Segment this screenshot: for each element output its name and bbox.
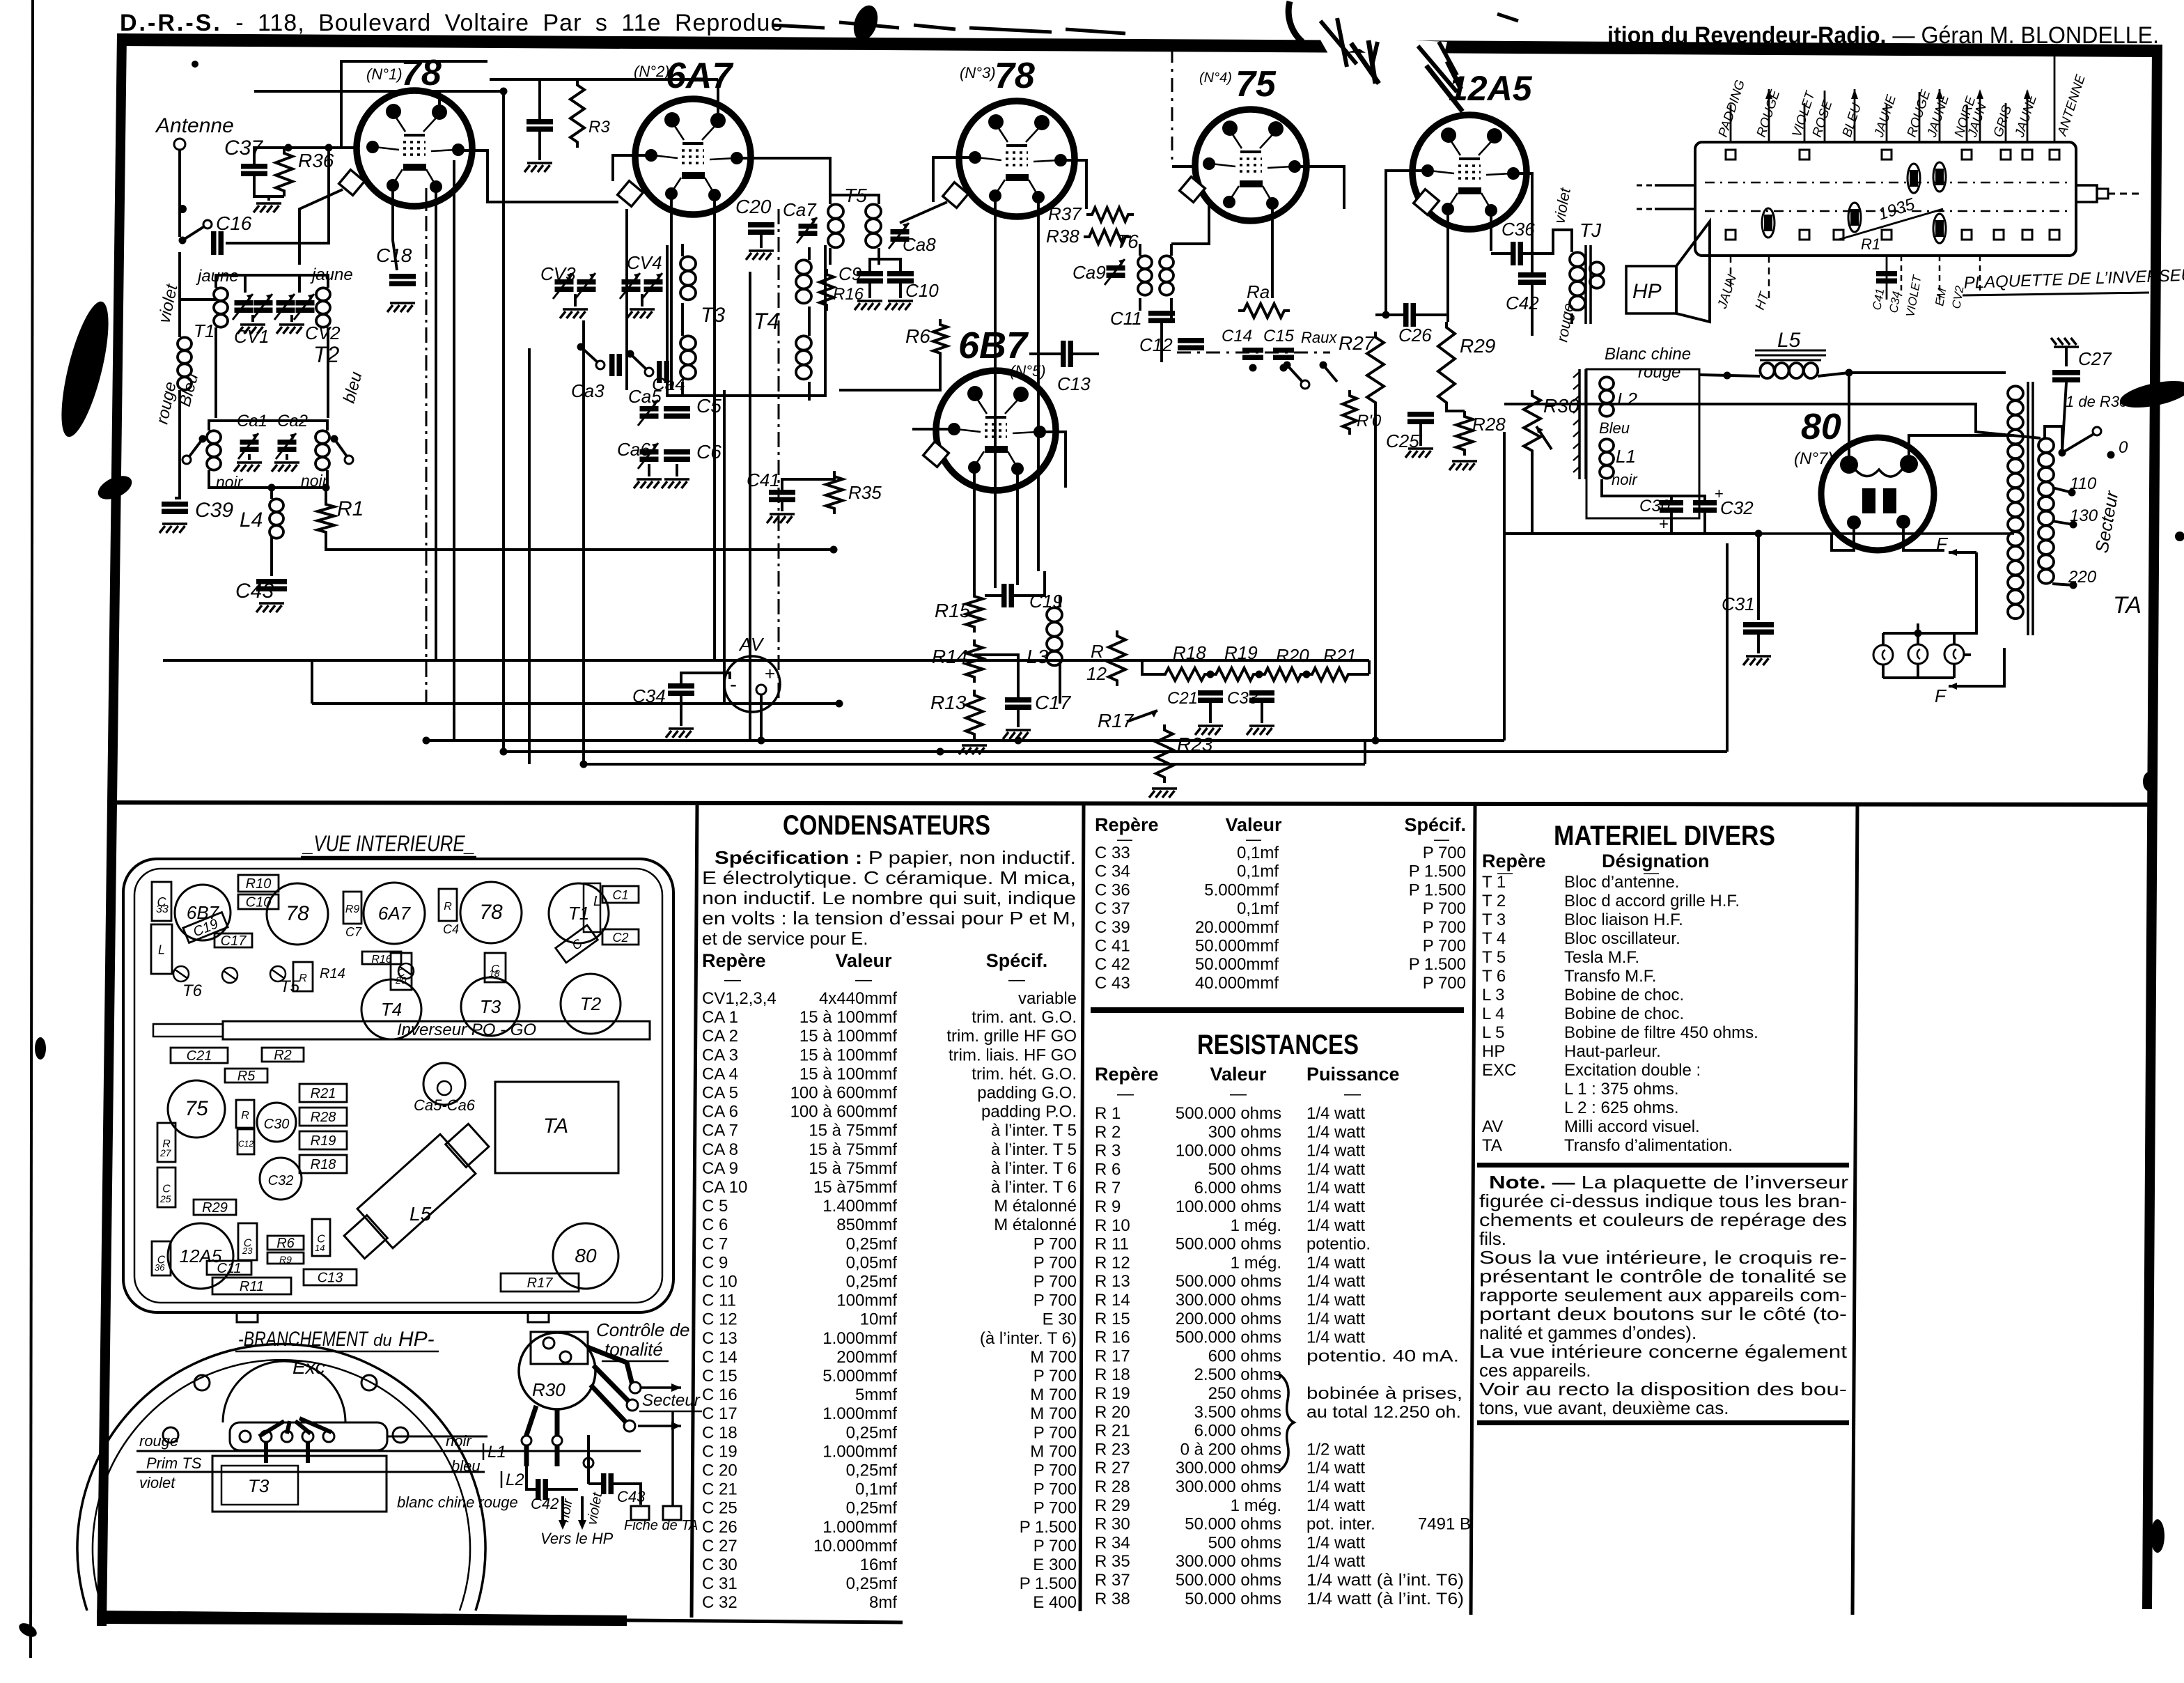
svg-text:CV1,2,3,4: CV1,2,3,4 [702, 989, 777, 1008]
svg-text:(à l’inter. T 6): (à l’inter. T 6) [980, 1329, 1077, 1348]
vi part C2 [602, 929, 639, 945]
svg-text:Transfo d’alimentation.: Transfo d’alimentation. [1564, 1136, 1733, 1155]
resistor R36 [276, 148, 292, 196]
svg-text:27: 27 [159, 1147, 172, 1158]
transformer TJ [1570, 219, 1604, 324]
svg-text:C 17: C 17 [702, 1404, 738, 1423]
svg-text:0,1mf: 0,1mf [1237, 844, 1279, 862]
svg-text:Puissance: Puissance [1306, 1064, 1400, 1085]
svg-text:tons, vue avant, deuxième cas.: tons, vue avant, deuxième cas. [1479, 1397, 1729, 1418]
svg-text:10.000mmf: 10.000mmf [813, 1537, 897, 1556]
svg-text:1/2 watt: 1/2 watt [1306, 1440, 1365, 1459]
wire R30 down [1531, 456, 1534, 534]
svg-text:75: 75 [1235, 64, 1277, 104]
capacitor C39 [162, 502, 188, 507]
vi part C14v [312, 1219, 330, 1256]
svg-text:Repère: Repère [1482, 851, 1546, 871]
vi tube 75 [168, 1080, 225, 1138]
svg-text:500.000 ohms: 500.000 ohms [1176, 1235, 1281, 1254]
plaquette labels top [1716, 72, 2089, 139]
svg-text:C32: C32 [1720, 497, 1754, 518]
speaker wires thick [259, 1418, 331, 1463]
svg-text:C 15: C 15 [702, 1367, 738, 1386]
svg-text:C6: C6 [696, 441, 721, 463]
svg-text:T3: T3 [701, 304, 725, 327]
svg-text:300.000 ohms: 300.000 ohms [1176, 1552, 1281, 1571]
svg-text:à l’inter. T 5: à l’inter. T 5 [991, 1140, 1077, 1159]
switch T2 left [199, 435, 207, 443]
ground C34 [680, 696, 682, 726]
transformer T3 [680, 244, 696, 397]
tube 80 pins [1840, 455, 1918, 529]
svg-text:200.000 ohms: 200.000 ohms [1176, 1310, 1281, 1328]
svg-text:600 ohms: 600 ohms [1208, 1347, 1281, 1365]
trimmer Ca6 [640, 449, 659, 455]
capacitor C26 [1403, 303, 1409, 327]
svg-text:Valeur: Valeur [835, 950, 892, 971]
grid cap 6A7 [618, 181, 643, 207]
capacitor C30 [1660, 500, 1683, 506]
svg-text:R13: R13 [930, 692, 967, 713]
svg-text:P 700: P 700 [1033, 1480, 1077, 1499]
svg-text:10mf: 10mf [860, 1310, 898, 1329]
svg-text:R 17: R 17 [1095, 1347, 1130, 1365]
wire C37/R36 bottom [254, 176, 284, 201]
vi trimmer Ca5-Ca6 [423, 1063, 465, 1105]
grid cap tube1 [339, 170, 365, 196]
transformer T4 [796, 247, 811, 401]
TA taps [2045, 426, 2077, 589]
wire vertical x1118 dashdot [778, 209, 780, 704]
svg-text:T6: T6 [182, 982, 203, 1000]
svg-text:Bloc oscillateur.: Bloc oscillateur. [1564, 929, 1680, 948]
capacitor C5 [664, 406, 690, 412]
vi part R29 [194, 1200, 236, 1216]
resistor R3 [570, 79, 584, 148]
svg-text:Note. — La plaquette de l’inve: Note. — La plaquette de l’inverseur [1489, 1172, 1848, 1193]
ground Ca6 [648, 464, 650, 476]
svg-text:T2: T2 [580, 993, 602, 1014]
svg-text:L 3: L 3 [1482, 986, 1504, 1005]
vi cap C32 [260, 1158, 302, 1200]
svg-text:au total 12.250 oh.: au total 12.250 oh. [1306, 1403, 1461, 1422]
svg-text:P 700: P 700 [1033, 1234, 1077, 1253]
svg-text:5mmf: 5mmf [855, 1386, 897, 1404]
resistor R12 [1109, 630, 1125, 686]
svg-text:R 37: R 37 [1095, 1571, 1130, 1590]
svg-text:50.000mmf: 50.000mmf [1195, 937, 1279, 956]
svg-text:6B7: 6B7 [958, 325, 1029, 366]
svg-text:L2: L2 [1617, 389, 1637, 410]
svg-text:P 700: P 700 [1033, 1253, 1077, 1272]
ground C39 [159, 524, 187, 533]
svg-text:Voir au recto la disposition d: Voir au recto la disposition des bou- [1479, 1379, 1847, 1399]
svg-text:T 6: T 6 [1482, 967, 1506, 986]
resistor R13 [966, 690, 983, 740]
arrows vers le HP [561, 1496, 564, 1524]
svg-text:—: — [1344, 1085, 1361, 1103]
table divider 1 [692, 805, 697, 1618]
svg-text:F: F [1935, 685, 1947, 706]
svg-text:—: — [1230, 1085, 1247, 1103]
svg-text:C14: C14 [1222, 327, 1252, 346]
vi can T4 [361, 979, 421, 1039]
trimmer Ca5 [640, 406, 659, 412]
transformer T6 [1138, 244, 1173, 320]
svg-text:R 19: R 19 [1095, 1384, 1130, 1403]
svg-text:C 25: C 25 [702, 1499, 738, 1518]
schematic bottom rule [117, 800, 2150, 807]
svg-text:3.500 ohms: 3.500 ohms [1194, 1403, 1281, 1422]
vi can T2 [561, 974, 621, 1034]
svg-text:T 1: T 1 [1482, 873, 1506, 892]
transformer T5 [828, 195, 881, 265]
resistor R15 [966, 591, 983, 633]
svg-text:CA 4: CA 4 [702, 1064, 738, 1083]
svg-text:-BRANCHEMENT: -BRANCHEMENT [238, 1328, 369, 1351]
svg-text:R: R [299, 972, 307, 984]
ground C25 [1419, 424, 1422, 446]
svg-text:14: 14 [315, 1243, 325, 1253]
svg-text:Bloc d’antenne.: Bloc d’antenne. [1564, 873, 1679, 892]
svg-text:C41: C41 [747, 470, 780, 490]
svg-text:C10: C10 [246, 895, 272, 910]
svg-text:1/4 watt: 1/4 watt [1306, 1104, 1365, 1123]
svg-text:L4: L4 [240, 509, 263, 532]
svg-text:C 37: C 37 [1095, 899, 1130, 918]
capacitor C25 [1407, 412, 1434, 417]
wire T2 to L4/R1 [270, 488, 273, 499]
svg-text:C 20: C 20 [702, 1461, 738, 1480]
vi tube 80 [553, 1223, 618, 1289]
wire top bus [254, 90, 504, 93]
svg-text:R36: R36 [298, 150, 334, 171]
svg-text:R 34: R 34 [1095, 1533, 1130, 1552]
wire C13 [1029, 352, 1061, 355]
svg-text:R30: R30 [532, 1379, 565, 1400]
svg-text:T 3: T 3 [1482, 910, 1506, 929]
svg-text:Ca8: Ca8 [903, 234, 936, 255]
svg-text:300.000 ohms: 300.000 ohms [1176, 1291, 1281, 1310]
svg-text:0,25mf: 0,25mf [846, 1461, 898, 1480]
switch 75a [1284, 362, 1291, 369]
svg-text:padding G.O.: padding G.O. [977, 1084, 1077, 1103]
ground C37 [253, 203, 281, 212]
svg-text:1.000mmf: 1.000mmf [822, 1518, 897, 1537]
svg-text:25: 25 [159, 1193, 171, 1204]
capacitor C13 [1061, 341, 1066, 367]
svg-text:110: 110 [2070, 474, 2097, 493]
svg-text:(N°4): (N°4) [1199, 70, 1232, 86]
svg-text:R1: R1 [337, 497, 364, 520]
svg-text:500.000 ohms: 500.000 ohms [1176, 1328, 1281, 1347]
svg-text:C 36: C 36 [1095, 881, 1130, 899]
vi part C19 [183, 913, 228, 943]
svg-text:R 28: R 28 [1095, 1478, 1130, 1496]
vi part C21 [171, 1048, 228, 1064]
speaker dome Exc [223, 1361, 345, 1422]
svg-text:variable: variable [1018, 989, 1077, 1008]
svg-text:R 23: R 23 [1095, 1440, 1130, 1459]
vi part stack R21 [299, 1084, 347, 1102]
svg-text:—: — [1008, 970, 1025, 989]
svg-text:à l’inter. T 5: à l’inter. T 5 [991, 1122, 1077, 1140]
grid cap 6B7 [923, 442, 949, 467]
coil L4 [270, 499, 283, 511]
wire antenna down [178, 150, 181, 237]
wire long vertical x612 dashdot [426, 188, 428, 704]
svg-text:F: F [1936, 534, 1949, 554]
svg-text:15 à75mmf: 15 à75mmf [813, 1178, 897, 1197]
svg-text:R17: R17 [527, 1275, 554, 1291]
svg-text:15 à 100mmf: 15 à 100mmf [799, 1008, 897, 1027]
svg-text:Ca3: Ca3 [571, 380, 604, 401]
svg-text:R28: R28 [311, 1110, 336, 1125]
vi part C23 [238, 1223, 257, 1260]
svg-text:1 de R30: 1 de R30 [2066, 393, 2128, 410]
svg-text:R 18: R 18 [1095, 1365, 1130, 1384]
svg-text:R5: R5 [237, 1069, 256, 1084]
switch T2 right [331, 435, 338, 443]
ground R13 [959, 745, 987, 754]
svg-text:CV4: CV4 [627, 252, 662, 273]
capacitor C9 [857, 271, 883, 277]
ground R23 [1149, 789, 1177, 798]
svg-text:Inverseur PO - GO: Inverseur PO - GO [397, 1021, 536, 1039]
switch C16 [179, 237, 187, 245]
svg-text:C 13: C 13 [702, 1329, 738, 1348]
svg-text:trim. grille HF GO: trim. grille HF GO [946, 1027, 1077, 1046]
svg-text:80: 80 [575, 1245, 597, 1266]
svg-text:C 7: C 7 [702, 1234, 728, 1253]
svg-text:1/4 watt: 1/4 watt [1306, 1197, 1365, 1216]
svg-text:M 700: M 700 [1030, 1386, 1077, 1404]
svg-text:1/4 watt: 1/4 watt [1306, 1179, 1365, 1197]
svg-text:C 27: C 27 [702, 1537, 738, 1556]
svg-text:R19: R19 [311, 1133, 336, 1149]
svg-text:R27: R27 [1339, 332, 1375, 354]
vi tube 6B7 [175, 885, 231, 940]
svg-text:15 à 75mmf: 15 à 75mmf [809, 1140, 897, 1159]
svg-text:C2: C2 [612, 931, 628, 945]
svg-text:C 5: C 5 [702, 1197, 728, 1216]
capacitor C17 [1005, 697, 1031, 703]
grid cap 12A5 [1414, 189, 1440, 215]
svg-text:TA: TA [2113, 592, 2142, 619]
svg-text:1/4 watt (à l’int. T6): 1/4 watt (à l’int. T6) [1306, 1571, 1464, 1590]
svg-text:AV: AV [738, 634, 765, 655]
trimmer CV4 pair [622, 279, 641, 285]
vi part R27 [157, 1123, 175, 1162]
svg-text:Excitation double :: Excitation double : [1564, 1061, 1701, 1080]
svg-text:1/4 watt: 1/4 watt [1306, 1291, 1365, 1310]
svg-text:P 1.500: P 1.500 [1020, 1574, 1077, 1593]
ground C17 [1017, 710, 1020, 727]
table CONDENSATEURS [702, 810, 1077, 1612]
vi part C11 [207, 1261, 251, 1276]
svg-text:blanc chine rouge: blanc chine rouge [397, 1494, 518, 1511]
svg-text:rouge: rouge [1638, 363, 1680, 382]
capacitor C43 [256, 579, 287, 584]
svg-text:L1: L1 [1616, 446, 1636, 467]
svg-text:(N°3): (N°3) [960, 64, 996, 82]
svg-text:noir: noir [446, 1432, 472, 1450]
svg-text:R11: R11 [240, 1279, 264, 1294]
switch Ca3 [577, 343, 585, 351]
svg-text:C21: C21 [187, 1048, 212, 1064]
svg-text:CA 5: CA 5 [702, 1084, 738, 1103]
svg-text:C 30: C 30 [702, 1556, 738, 1574]
svg-text:C9: C9 [838, 263, 861, 284]
transformer T1 top [196, 265, 353, 418]
svg-text:C26: C26 [1398, 325, 1432, 346]
svg-text:C17: C17 [221, 933, 247, 949]
table divider 4 [1852, 805, 1857, 1615]
svg-text:C 33: C 33 [1095, 844, 1130, 862]
svg-text:P 700: P 700 [1033, 1292, 1077, 1310]
svg-text:1.000mmf: 1.000mmf [822, 1329, 897, 1348]
svg-text:1/4 watt: 1/4 watt [1306, 1478, 1365, 1496]
switch Ca4 [627, 350, 634, 358]
svg-text:0,1mf: 0,1mf [1237, 899, 1279, 918]
svg-text:0,25mf: 0,25mf [846, 1273, 898, 1292]
wire CV tops [244, 275, 247, 293]
wire C17 top [974, 655, 1018, 697]
svg-text:padding P.O.: padding P.O. [981, 1103, 1077, 1122]
svg-text:100 à 600mmf: 100 à 600mmf [790, 1084, 898, 1103]
table MATERIEL DIVERS [1477, 821, 1849, 1425]
svg-text:R2: R2 [274, 1048, 292, 1063]
svg-text:1/4 watt: 1/4 watt [1306, 1142, 1365, 1161]
svg-text:6A7: 6A7 [378, 903, 412, 924]
ground C2 [524, 163, 552, 172]
capacitor C10 [887, 271, 914, 277]
svg-text:C31: C31 [1722, 594, 1755, 614]
plaquette fuses [1762, 162, 1946, 243]
svg-text:40.000mmf: 40.000mmf [1195, 974, 1279, 993]
svg-text:Prim TS: Prim TS [146, 1455, 202, 1472]
svg-text:100.000 ohms: 100.000 ohms [1176, 1142, 1281, 1161]
wire plate line y88 [341, 61, 487, 148]
vi part stack R18 [299, 1155, 347, 1173]
svg-text:12: 12 [1086, 663, 1107, 684]
svg-text:à l’inter. T 6: à l’inter. T 6 [991, 1178, 1077, 1197]
svg-text:Bobine de filtre 450 ohms.: Bobine de filtre 450 ohms. [1564, 1023, 1758, 1042]
wire R29 R28 [1446, 408, 1465, 411]
trimmer Ca8 [891, 229, 910, 235]
svg-text:—: — [724, 970, 741, 989]
svg-text:300 ohms: 300 ohms [1208, 1123, 1281, 1142]
svg-text:C 34: C 34 [1095, 862, 1130, 881]
wire to C39 [175, 390, 180, 498]
svg-text:C27: C27 [2078, 348, 2112, 369]
ground C33b [1261, 703, 1263, 723]
capacitor Ca3 [609, 354, 615, 376]
svg-text:rouge: rouge [139, 1432, 178, 1450]
svg-text:R 38: R 38 [1095, 1590, 1130, 1608]
svg-text:P 700: P 700 [1033, 1273, 1077, 1292]
svg-text:500.000 ohms: 500.000 ohms [1176, 1272, 1281, 1291]
svg-text:L5: L5 [1777, 329, 1801, 352]
svg-text:R3: R3 [588, 118, 610, 137]
svg-text:Vers le HP: Vers le HP [540, 1530, 614, 1547]
svg-text:R6: R6 [276, 1236, 295, 1251]
svg-text:R 6: R 6 [1095, 1160, 1121, 1179]
svg-text:1/4 watt: 1/4 watt [1306, 1272, 1365, 1291]
svg-text:Spécif.: Spécif. [986, 950, 1048, 971]
svg-text:P 700: P 700 [1423, 844, 1466, 862]
svg-text:0,05mf: 0,05mf [846, 1253, 898, 1272]
svg-text:nalité et gammes d’ondes).: nalité et gammes d’ondes). [1479, 1322, 1696, 1343]
svg-text:L: L [158, 943, 165, 957]
svg-text:T 2: T 2 [1482, 892, 1506, 910]
svg-text:rapporte seulement aux apparei: rapporte seulement aux appareils com- [1479, 1285, 1847, 1305]
svg-text:C16: C16 [216, 212, 252, 234]
svg-text:C13: C13 [318, 1271, 343, 1286]
svg-text:TA: TA [1482, 1136, 1502, 1155]
svg-text:C11: C11 [217, 1261, 241, 1276]
wire L5 ends [1699, 375, 1760, 376]
capacitor C16 [211, 231, 217, 255]
svg-text:CV3: CV3 [540, 263, 576, 284]
svg-text:R'0: R'0 [1357, 412, 1382, 431]
svg-text:EXC: EXC [1482, 1061, 1516, 1080]
svg-text:50.000 ohms: 50.000 ohms [1185, 1515, 1281, 1534]
svg-text:HP: HP [1482, 1042, 1505, 1061]
svg-text:R 11: R 11 [1095, 1235, 1129, 1254]
svg-text:M 700: M 700 [1030, 1404, 1077, 1423]
ground CV1 [251, 315, 254, 322]
svg-text:R 1: R 1 [1095, 1104, 1121, 1123]
tube 80 filament bars [1862, 488, 1875, 513]
svg-text:L 4: L 4 [1482, 1005, 1504, 1023]
svg-text:500.000 ohms: 500.000 ohms [1176, 1104, 1281, 1123]
wire tube1 pins [393, 91, 618, 660]
svg-text:C 12: C 12 [702, 1310, 738, 1329]
svg-text:M étalonné: M étalonné [994, 1197, 1077, 1216]
svg-text:HP: HP [1632, 280, 1662, 303]
svg-text:violet: violet [139, 1474, 175, 1491]
svg-text:15 à 100mmf: 15 à 100mmf [799, 1027, 897, 1046]
wire antenna coil to T1 [180, 298, 216, 301]
svg-text:R20: R20 [1276, 645, 1309, 666]
svg-text:6.000 ohms: 6.000 ohms [1194, 1422, 1281, 1441]
svg-text:P 700: P 700 [1033, 1423, 1077, 1442]
capacitor C19 [1001, 584, 1007, 607]
svg-text:C42: C42 [531, 1495, 559, 1512]
vi part R17 [501, 1273, 579, 1292]
header tail marks [772, 22, 1125, 33]
svg-text:130: 130 [2070, 506, 2098, 525]
svg-text:TA: TA [543, 1115, 568, 1138]
svg-text:R 2: R 2 [1095, 1123, 1121, 1142]
wire L4 to C43 [270, 536, 273, 576]
svg-text:fils.: fils. [1479, 1228, 1506, 1249]
svg-text:1/4 watt: 1/4 watt [1306, 1216, 1365, 1235]
frame right border [2142, 45, 2162, 1609]
svg-text:23: 23 [242, 1246, 253, 1256]
trimmer CV2 [276, 300, 295, 306]
svg-text:Ca1: Ca1 [237, 412, 267, 431]
wire vertical x760 [528, 348, 531, 764]
svg-text:C30: C30 [264, 1117, 290, 1132]
svg-text:C15: C15 [1263, 327, 1295, 346]
svg-text:R10: R10 [246, 876, 272, 892]
magnet block T3 [212, 1456, 387, 1512]
svg-text:C12: C12 [1139, 334, 1173, 355]
vi part R6 [267, 1236, 304, 1251]
svg-text:C 32: C 32 [702, 1593, 738, 1612]
